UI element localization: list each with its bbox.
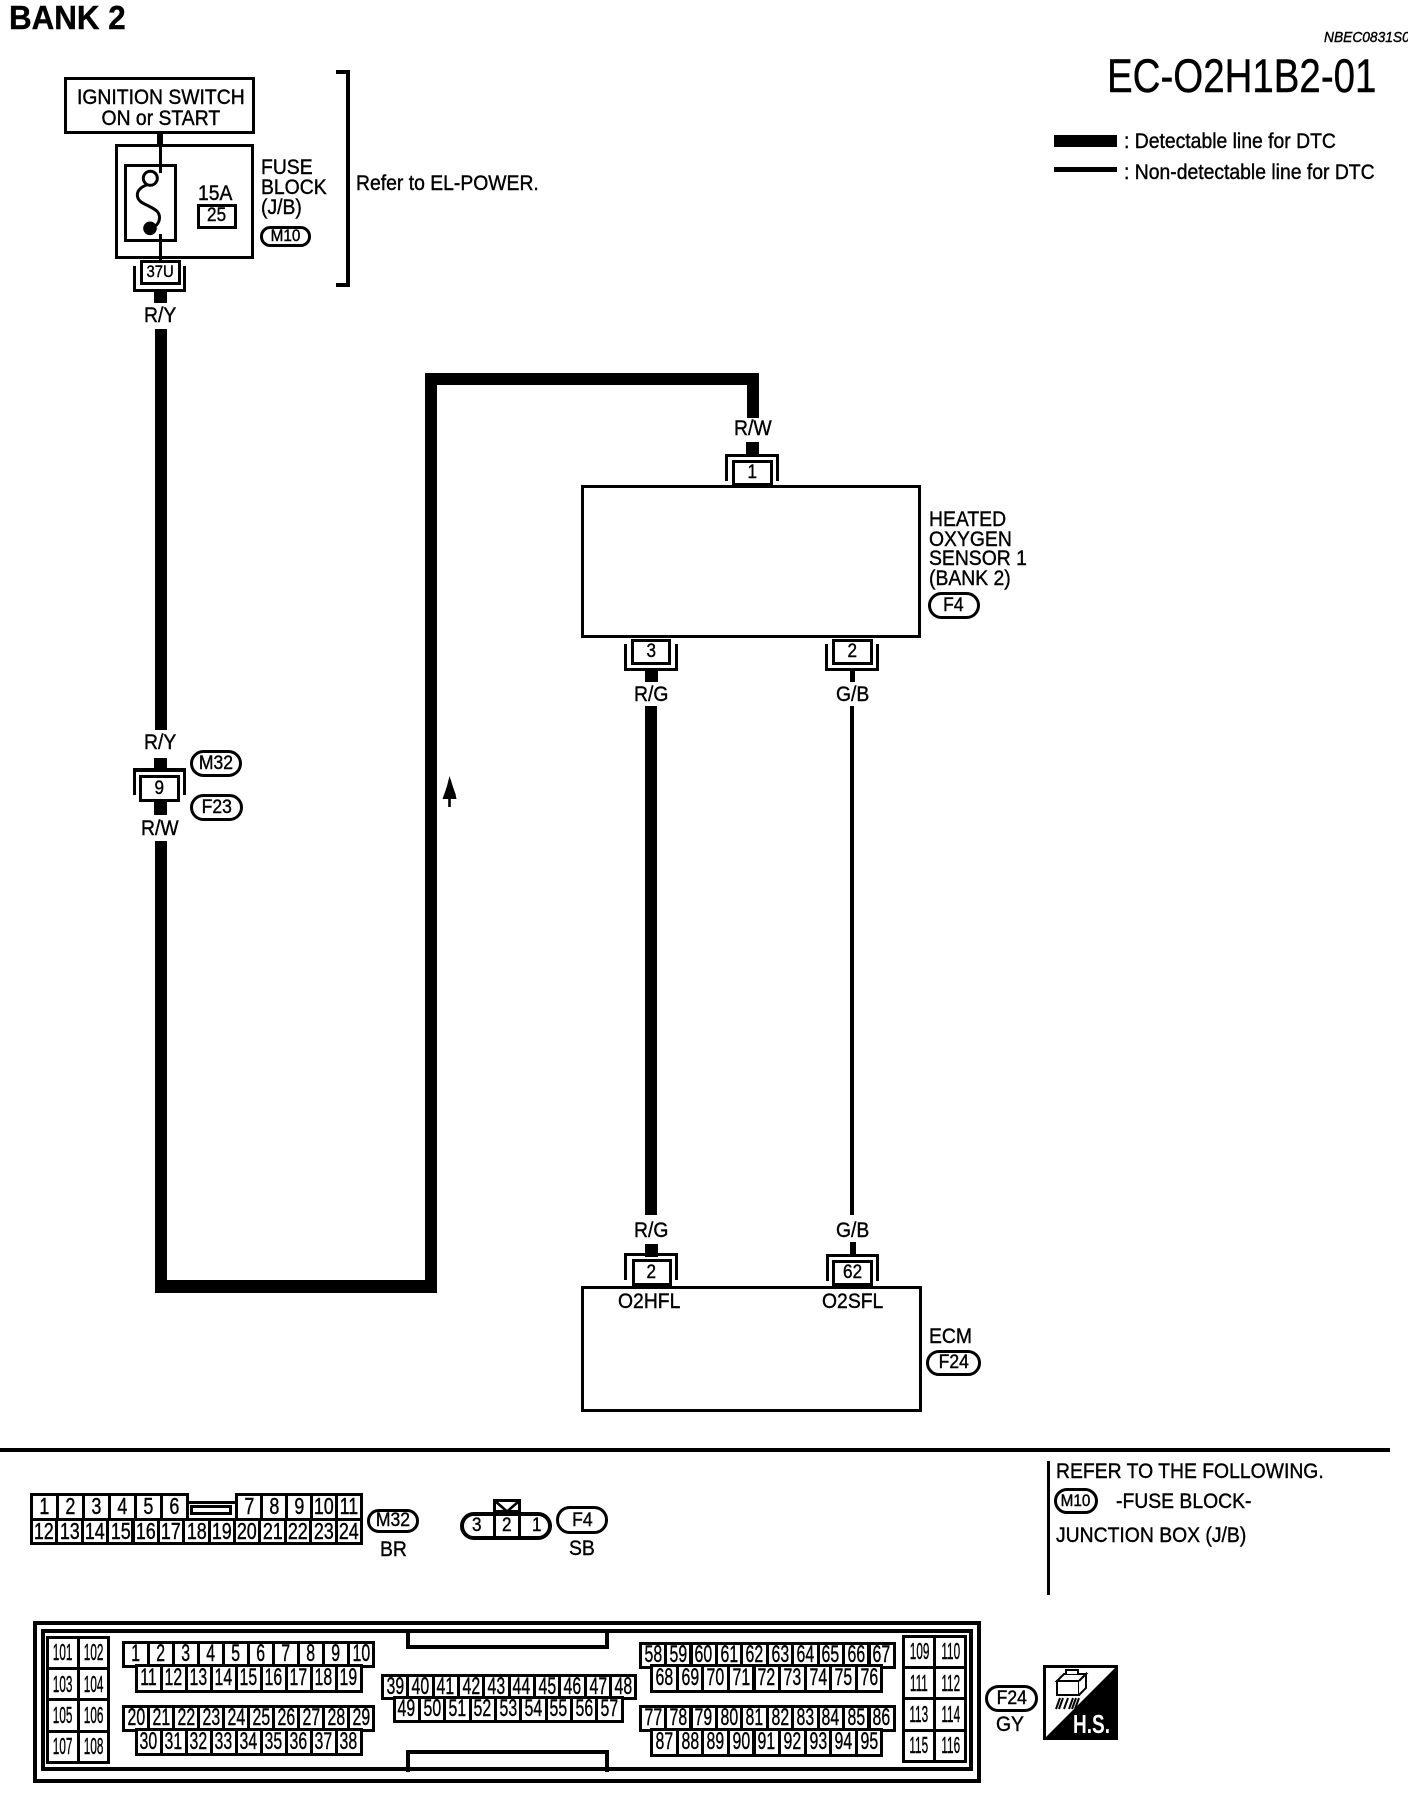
wire R/W vertical left (155, 841, 167, 1281)
wire nub above pin 62 ECM (850, 1242, 856, 1255)
wire label R/W (141, 818, 179, 840)
color SB (569, 1538, 595, 1560)
wire label R/G lower (634, 1220, 668, 1242)
connector 9 M32-F23 (154, 758, 166, 769)
wire R/G vertical (645, 706, 657, 1215)
wire R/Y vertical (155, 329, 167, 730)
ECM box (581, 1286, 922, 1412)
connector id F24 face (985, 1685, 1038, 1712)
label ECM (929, 1326, 972, 1348)
connector face M32 24-pin (30, 1493, 59, 1521)
connector id M32 face (367, 1509, 419, 1533)
separator line (0, 1448, 1390, 1452)
title EC-O2H1B2-01 (1107, 53, 1376, 101)
wire nub below 37U (154, 292, 166, 303)
connector pin 1 heated oxygen sensor (725, 454, 779, 457)
connector id M10 reference (1054, 1488, 1098, 1514)
wire loop vertical (425, 373, 437, 1293)
connector id F24 (926, 1350, 981, 1376)
legend text detectable (1124, 131, 1336, 153)
connector id F4 face (556, 1506, 608, 1534)
label heated oxygen sensor (929, 510, 1027, 588)
ignition switch label (77, 87, 245, 129)
pin 2 label (502, 1516, 512, 1535)
wire label R/G (634, 684, 668, 706)
wire nub below pin 3 (645, 671, 658, 682)
wire top horizontal (425, 373, 759, 385)
color GY (996, 1714, 1024, 1736)
color BR (380, 1539, 407, 1561)
pin grid 39-57 (381, 1674, 409, 1700)
wire label R/Y 2 (144, 732, 176, 754)
pin grid 109-116 (902, 1635, 936, 1669)
pin 3 label (472, 1516, 482, 1535)
note junction box (1056, 1525, 1246, 1547)
wire nub above pin 1 (746, 442, 759, 455)
pin grid 20-38 (122, 1705, 150, 1732)
connector face F24 ECM (33, 1621, 981, 1783)
pin 1 label (532, 1516, 542, 1535)
pin grid 77-95 (639, 1705, 667, 1732)
fuse block box M10 (115, 144, 255, 259)
ignition switch box (64, 77, 255, 134)
fuse symbol box (124, 164, 177, 242)
wire bottom horizontal (155, 1280, 438, 1294)
bracket refer to EL-POWER (346, 70, 350, 287)
fuse block label (261, 157, 327, 217)
legend text non-detectable (1124, 162, 1375, 184)
arrow up on loop wire (441, 775, 459, 809)
note fuse block (1116, 1491, 1251, 1513)
wire G/B vertical (850, 706, 854, 1215)
connector pin 3 heated oxygen sensor (631, 639, 671, 665)
label O2SFL (822, 1291, 883, 1313)
connector id F4 (928, 592, 980, 619)
note refer to the following (1056, 1461, 1324, 1483)
connector id F23 (190, 794, 243, 821)
wire drop to sensor (747, 373, 759, 418)
doc number NBEC0831S0 (1324, 31, 1408, 46)
wire label G/B (836, 684, 869, 706)
pin grid 1-19 (122, 1641, 150, 1669)
connector pin 2 ECM O2HFL (624, 1253, 678, 1256)
wire into fuse (159, 144, 162, 173)
wire nub above pin 2 ECM (645, 1244, 658, 1257)
title BANK 2 (9, 1, 126, 34)
pin grid 101-108 (46, 1636, 80, 1670)
pin grid 58-76 (639, 1642, 667, 1669)
connector face F4 3-pin (460, 1512, 551, 1540)
connector pin 2 heated oxygen sensor (832, 639, 873, 665)
note refer to EL-POWER (356, 173, 539, 195)
connector id M10 (260, 226, 311, 247)
wire label R/W top (734, 418, 772, 440)
wire label G/B lower (836, 1220, 869, 1242)
wire nub ignition to fuse block (157, 134, 163, 145)
legend thick bar (detectable line) (1054, 135, 1117, 147)
connector 37U (140, 260, 181, 285)
legend thin bar (non-detectable line) (1054, 167, 1117, 172)
svg-text:H.S.: H.S. (1073, 1709, 1110, 1739)
connector pin 62 ECM O2SFL (826, 1254, 879, 1257)
wire label R/Y (144, 305, 176, 327)
label O2HFL (618, 1291, 680, 1313)
fuse number 25 box (197, 204, 237, 229)
wire nub below pin 2 (850, 671, 855, 682)
H.S. hand symbol logo (1043, 1665, 1118, 1740)
heated oxygen sensor 1 bank 2 box (581, 485, 921, 639)
connector id M32 (190, 750, 242, 777)
reference divider line (1047, 1461, 1050, 1595)
fuse rating 15A (198, 183, 232, 205)
fuse symbol 15A (120, 160, 190, 250)
wire from fuse to 37U (159, 234, 162, 262)
